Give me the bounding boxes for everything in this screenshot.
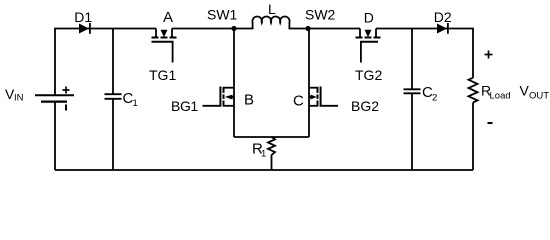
- svg-text:OUT: OUT: [529, 91, 549, 102]
- resistor RLoad: [469, 78, 478, 103]
- wire: top rail segment SW2 to TG2 left lead: [308, 28, 360, 30]
- svg-text:IN: IN: [14, 93, 24, 104]
- resistor R1: [268, 137, 275, 170]
- svg-text:Load: Load: [490, 91, 511, 102]
- label VOUT: [520, 83, 550, 102]
- svg-text:1: 1: [261, 149, 266, 160]
- wire: battery bottom lead: [54, 102, 56, 170]
- svg-text:SW2: SW2: [305, 7, 336, 23]
- svg-text:BG2: BG2: [351, 98, 379, 114]
- capacitor C1: [105, 94, 122, 99]
- output plus sign: [485, 51, 493, 59]
- svg-text:TG1: TG1: [149, 67, 176, 83]
- svg-text:D2: D2: [434, 9, 452, 25]
- battery plus sign: [63, 89, 70, 91]
- svg-text:SW1: SW1: [207, 7, 238, 23]
- transistor TG1 (top gate FET at node A): [152, 29, 177, 63]
- wire: C1 branch bottom: [112, 99, 114, 170]
- output minus sign: [488, 122, 493, 124]
- label RLoad: [481, 83, 511, 102]
- transistor B (bottom gate FET, BG1): [203, 29, 235, 138]
- wire: C2 branch top: [411, 29, 413, 90]
- battery VIN: [35, 87, 74, 111]
- wire: C1 branch top: [112, 29, 114, 95]
- svg-text:2: 2: [432, 93, 437, 104]
- wire: top rail left segment (VIN corner to TG1 left lead): [55, 29, 156, 96]
- wire: top rail right segment (TG2 right lead to output corner): [376, 29, 473, 78]
- node SW2 junction dot: [305, 26, 310, 31]
- svg-text:D1: D1: [74, 9, 92, 25]
- label C1: [123, 90, 138, 109]
- wire: RLoad branch bottom: [472, 103, 474, 171]
- svg-text:TG2: TG2: [355, 67, 382, 83]
- label C2: [422, 84, 437, 104]
- wire: B source to C source bottom link: [234, 136, 309, 138]
- wire: BG1 gate lead: [203, 105, 221, 107]
- transistor C (bottom gate FET, BG2): [309, 29, 338, 138]
- wire: BG2 gate lead: [321, 105, 338, 107]
- svg-text:1: 1: [133, 98, 138, 109]
- diode D1: [79, 23, 90, 34]
- capacitor C2: [404, 89, 421, 93]
- svg-text:L: L: [268, 1, 276, 17]
- diode D2: [437, 23, 448, 34]
- svg-text:BG1: BG1: [171, 98, 198, 114]
- battery minus tick: [65, 105, 67, 111]
- wire: top rail middle segment (TG1 right lead to SW1): [172, 28, 234, 30]
- wire: C2 branch bottom: [411, 93, 413, 170]
- label VIN: [5, 86, 24, 104]
- svg-text:C: C: [293, 93, 304, 110]
- svg-text:B: B: [244, 92, 254, 109]
- transistor TG2 (top gate FET at node D): [356, 29, 381, 63]
- label R1: [252, 141, 266, 160]
- svg-text:D: D: [364, 10, 374, 26]
- wire: bottom rail: [55, 169, 473, 171]
- svg-text:A: A: [163, 9, 173, 26]
- svg-text:V: V: [520, 83, 530, 99]
- node SW1 junction dot: [231, 26, 236, 31]
- inductor L: [234, 17, 308, 29]
